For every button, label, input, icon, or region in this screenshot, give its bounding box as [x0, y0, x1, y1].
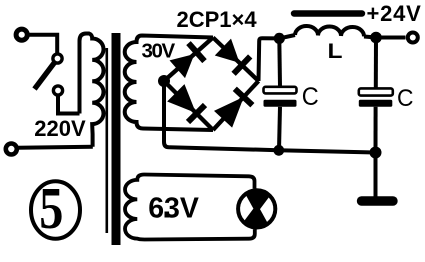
svg-text:30V: 30V [142, 40, 176, 63]
node: rail dot under C1 [273, 145, 284, 156]
switch S1 bottom contact [53, 86, 62, 95]
svg-text:+24V: +24V [367, 1, 422, 26]
capacitor C1 bottom plate [264, 100, 297, 107]
diode D2 (top to right) [217, 41, 250, 74]
svg-text:C: C [397, 85, 414, 112]
wire bridge minus down to bottom rail [164, 81, 169, 147]
node: bridge left vertex junction dot [158, 75, 170, 87]
wire L to output terminal [364, 37, 406, 38]
switch S1 blade [35, 63, 55, 90]
transformer core thin line [106, 48, 109, 233]
lamp LP1 [238, 191, 275, 228]
figure number 5 circle [31, 181, 80, 238]
svg-text:63V: 63V [148, 193, 199, 225]
secondary winding 30V [125, 36, 213, 131]
wire dot to choke L [279, 35, 295, 38]
wire to ground [374, 153, 378, 198]
bridge edge bottom-right [213, 81, 259, 130]
node: rail dot under C2 [370, 147, 382, 159]
choke L iron core bar [294, 10, 362, 16]
terminal T2 (220V bottom) [6, 144, 17, 155]
transformer core thick bar [112, 33, 121, 245]
capacitor C2 bottom plate [359, 100, 393, 107]
capacitor C1 bottom wire [279, 107, 280, 150]
svg-text:C: C [302, 83, 319, 111]
capacitor C1 top wire [277, 38, 282, 86]
svg-text:L: L [328, 40, 343, 63]
svg-text:5: 5 [39, 175, 63, 241]
bridge edge left-bottom [164, 81, 213, 130]
choke L winding [295, 26, 364, 36]
capacitor C2 top plate [359, 88, 393, 95]
ground bar [362, 196, 394, 205]
capacitor C1 top plate [264, 87, 297, 94]
wire switch to primary winding [58, 95, 80, 113]
diode D3 (left to bottom) [169, 86, 205, 122]
svg-text:220V: 220V [34, 116, 86, 141]
wire bottom rail [169, 147, 376, 152]
node: top rail dot left of L [274, 33, 285, 44]
winding 6.3V [125, 175, 255, 240]
capacitor C2 top wire [374, 38, 378, 88]
switch S1 top contact [53, 54, 62, 63]
terminal +24V output [408, 33, 418, 43]
diode D1 (left to top) [172, 43, 205, 76]
wire primary to terminal T2 [18, 147, 93, 148]
svg-text:2CP1×4: 2CP1×4 [177, 7, 258, 32]
bridge edge left-top [164, 38, 213, 82]
transformer primary winding (220V) [80, 34, 104, 147]
bridge edge top-right [213, 38, 259, 82]
node: top rail dot right of L [370, 32, 382, 44]
diode D4 (bottom to right) [216, 89, 252, 126]
capacitor C2 bottom wire [374, 107, 378, 153]
wire T1 to switch [29, 35, 58, 53]
wire bridge plus riser to top rail [259, 38, 280, 81]
terminal T1 top-left [16, 29, 27, 40]
